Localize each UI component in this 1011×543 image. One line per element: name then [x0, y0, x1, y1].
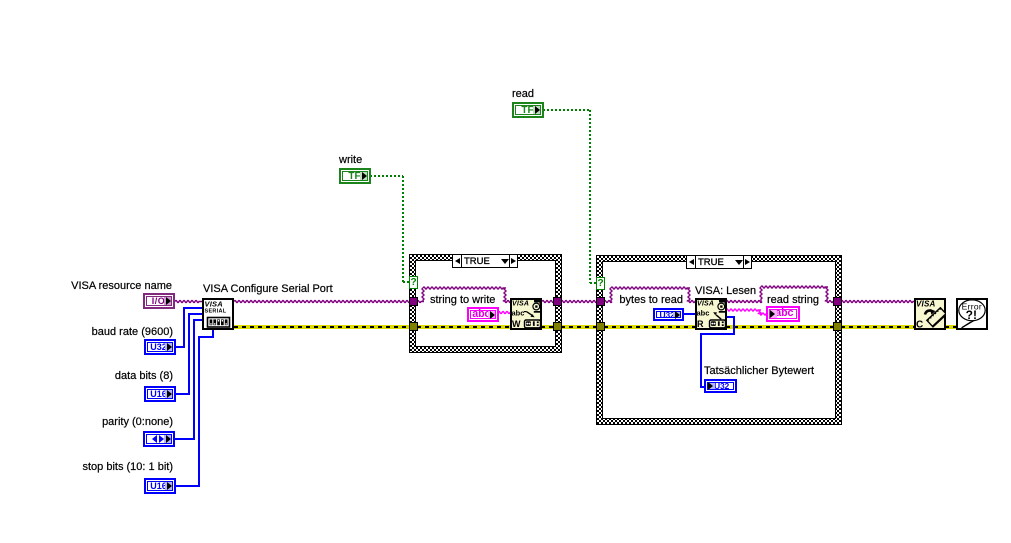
- svg-text:abc: abc: [697, 309, 710, 318]
- svg-text:VISA: VISA: [697, 301, 714, 308]
- svg-text:?!: ?!: [966, 308, 977, 322]
- svg-text:VISA: VISA: [512, 301, 529, 308]
- svg-text:VISA: VISA: [916, 300, 935, 309]
- svg-text:VISA: VISA: [205, 300, 223, 309]
- svg-text:C: C: [916, 320, 923, 331]
- svg-text:W: W: [512, 319, 521, 329]
- svg-text:abc: abc: [512, 309, 525, 318]
- svg-text:R: R: [697, 319, 704, 329]
- svg-text:SERIAL: SERIAL: [205, 309, 227, 315]
